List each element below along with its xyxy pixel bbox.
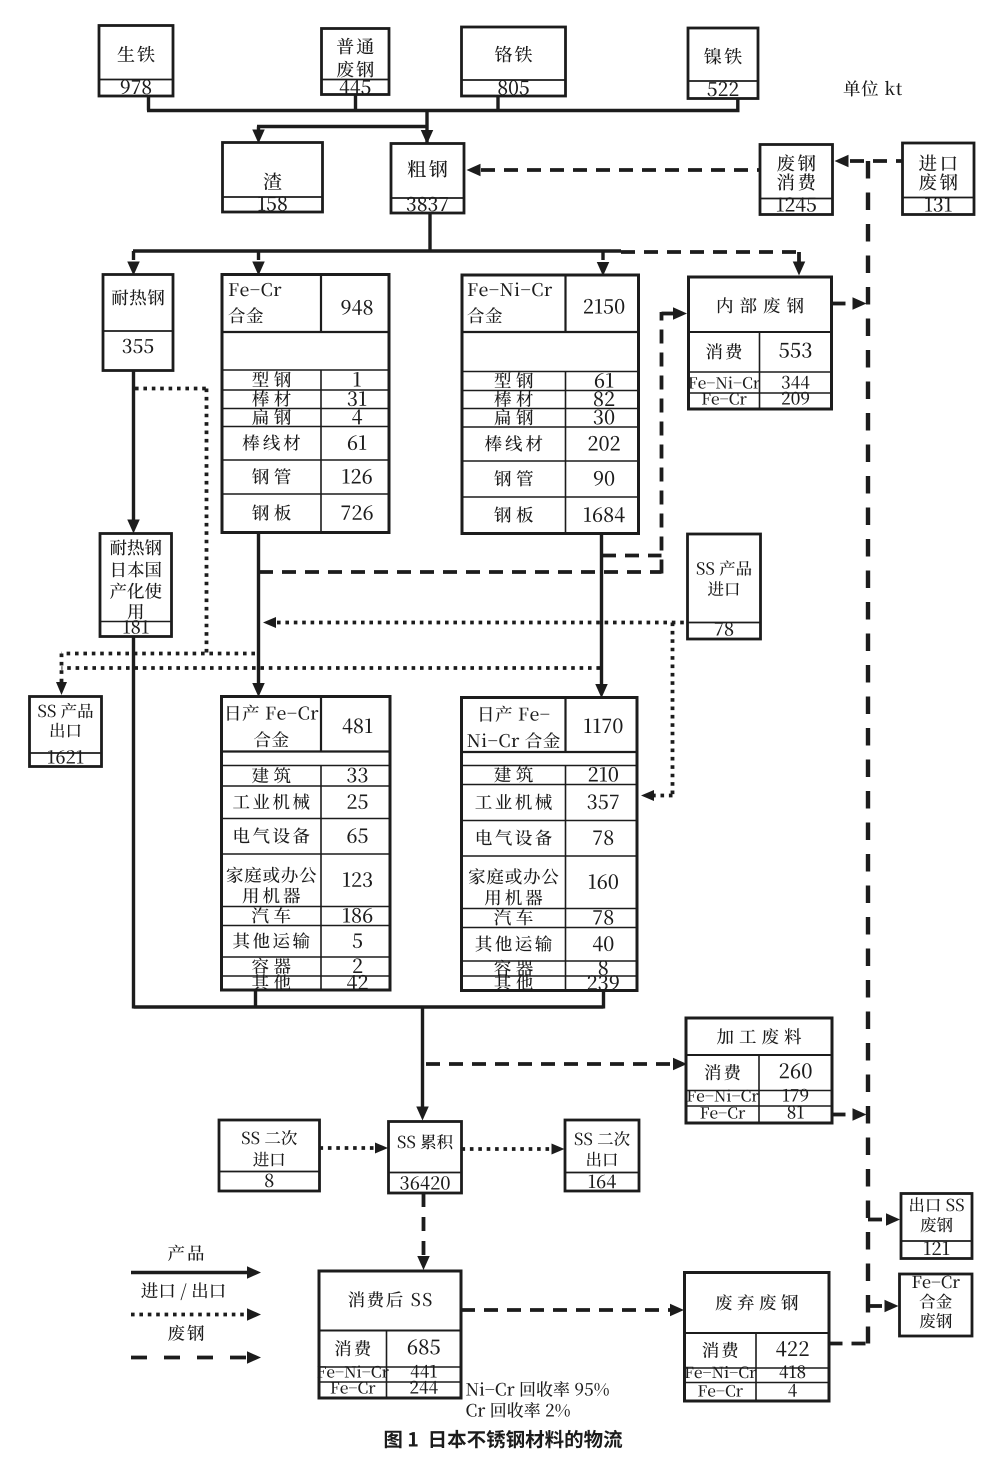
box 废钢消费 (scrap consumption) 1245 [760, 145, 833, 215]
dashed wire 废弃废钢 to main vertical [829, 1342, 867, 1346]
box 废弃废钢 (discarded scrap) [685, 1273, 830, 1402]
box 进口废钢 (imported scrap) 131 [903, 143, 975, 215]
box 渣 (slag) 158 [223, 143, 323, 213]
box 出口 SS 废钢 121 [901, 1194, 972, 1259]
box SS 累积 36420 [389, 1122, 462, 1194]
dotted wire exports to SS 产品出口 [56, 389, 600, 696]
wire split to 渣 and 粗钢 with arrows [252, 111, 433, 145]
box 生铁 (pig iron) 978 [99, 26, 173, 97]
dashed wire SS 累积 to 消费后 SS [417, 1193, 430, 1270]
table Fe-Ni-Cr 合金 2150 [462, 275, 639, 534]
box SS 产品进口 78 [688, 534, 761, 639]
box 镍铁 (ferronickel) 522 [688, 28, 758, 99]
dashed wire mill scrap from product feeds to 内部废钢 [259, 307, 687, 573]
legend 产品 solid arrow [131, 1245, 261, 1279]
box SS 产品出口 1621 [30, 697, 102, 767]
box 铬铁 (ferrochrome) 805 [462, 27, 566, 96]
dashed wire main vertical to 出口 SS 废钢 [868, 1213, 900, 1226]
label 单位 kt (unit kt) [844, 80, 903, 96]
dotted wire SS 累积 to SS 二次出口 [462, 1144, 565, 1155]
box Fe-Cr 合金废钢 [900, 1274, 973, 1336]
dashed wire processing scrap to 加工废料 [426, 1058, 687, 1071]
wire 粗钢 to steel-type split [127, 213, 621, 277]
table 日产 Fe-Ni-Cr 合金 1170 [462, 698, 638, 991]
box 消费后 SS (post-consumer SS) [317, 1271, 461, 1398]
dashed wire crude steel scrap to 内部废钢 [621, 252, 805, 276]
dashed wire main vertical scrap line right side [866, 161, 870, 1344]
wire Fe-Cr products to 日产 Fe-Cr 合金 [252, 533, 265, 698]
dashed wire 进口废钢 to 废钢消费 [835, 155, 902, 168]
dashed wire 内部废钢 to main vertical [832, 297, 867, 310]
legend 进口/出口 dotted arrow [131, 1282, 261, 1320]
dashed wire 消费后 SS to 废弃废钢 [461, 1304, 684, 1317]
dotted wire SS 产品进口 to product flows [263, 617, 684, 801]
wire Fe-Ni-Cr products to 日产 Fe-Ni-Cr 合金 [595, 534, 608, 699]
wire collector from source boxes [147, 94, 740, 113]
dashed wire 废钢消费 to 粗钢 [467, 164, 760, 177]
box 加工废料 (processing scrap) [686, 1018, 832, 1123]
dashed wire 加工废料 to main vertical [832, 1108, 867, 1121]
table 日产 Fe-Cr 合金 481 [222, 697, 391, 991]
box 耐热钢日本国产化使用 181 [100, 534, 172, 637]
dashed wire main vertical to Fe-Cr 合金废钢 [868, 1300, 899, 1313]
box 粗钢 (crude steel) 3837 [391, 144, 464, 214]
table Fe-Cr 合金 948 [222, 275, 389, 533]
dotted wire SS 二次进口 to SS 累积 [320, 1143, 389, 1154]
box 普通废钢 (ordinary scrap) 445 [322, 29, 390, 95]
box 耐热钢 (heat-resistant steel) 355 [103, 275, 173, 371]
caption 图 1 日本不锈钢材料的物流 [385, 1430, 622, 1448]
box 内部废钢 (internal scrap) [689, 277, 832, 409]
box SS 二次出口 164 [565, 1120, 639, 1191]
legend 废钢 dashed arrow [131, 1325, 261, 1364]
wire products to SS 累积 collector [134, 637, 604, 1121]
label Ni-Cr 回收率 95% / Cr 回收率 2% [466, 1381, 609, 1418]
wire 耐热钢 to 耐热钢日本国产化使用 [127, 371, 140, 534]
box SS 二次进口 8 [219, 1120, 320, 1191]
